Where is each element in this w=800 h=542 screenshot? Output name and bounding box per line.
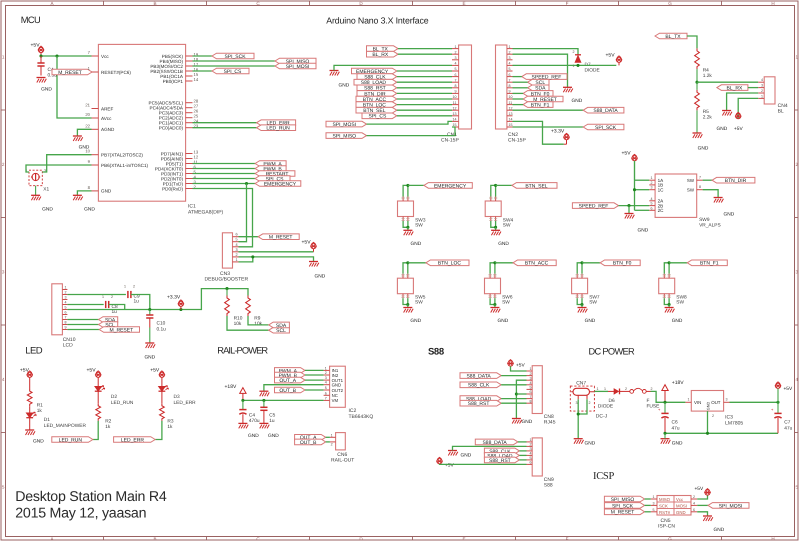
svg-text:3: 3 (761, 84, 763, 88)
net flag M_RESET (CN3) (258, 234, 299, 240)
wire AGND to ground (77, 129, 91, 136)
junction IC3 gnd (706, 432, 709, 435)
svg-text:DC POWER: DC POWER (589, 346, 636, 356)
svg-text:MISO: MISO (659, 497, 671, 502)
svg-text:9: 9 (455, 90, 457, 94)
svg-text:BTN_SEL: BTN_SEL (525, 183, 547, 189)
svg-text:SPI_MOSI: SPI_MOSI (286, 64, 310, 70)
wire +3.3V rail (LCD) (67, 289, 248, 310)
svg-text:6: 6 (236, 233, 238, 237)
svg-text:5: 5 (530, 456, 532, 460)
svg-text:8: 8 (455, 84, 457, 88)
svg-text:6: 6 (325, 391, 327, 395)
capacitor C7 (777, 402, 779, 413)
svg-text:Vcc: Vcc (101, 54, 109, 59)
svg-text:SPI_SCK: SPI_SCK (612, 503, 634, 509)
connector CN7 DC jack (570, 386, 594, 411)
wire EMERGENCY to CN1 pin5 (397, 70, 452, 72)
svg-text:M_RESET: M_RESET (110, 327, 134, 333)
IC2 motor driver body (330, 366, 346, 407)
svg-text:SCL: SCL (276, 328, 286, 334)
svg-text:1: 1 (455, 45, 457, 49)
junction +3.3V stem (179, 308, 182, 311)
svg-text:S88_CLK: S88_CLK (468, 383, 490, 389)
power +5V (CN4) (736, 114, 741, 119)
wire CN4 pin2 to ground (727, 93, 759, 111)
svg-text:2015 May 12, yaasan: 2015 May 12, yaasan (15, 506, 146, 522)
svg-text:SPI_MOSI: SPI_MOSI (332, 122, 356, 128)
svg-text:SW: SW (415, 300, 423, 306)
svg-text:4: 4 (325, 381, 327, 385)
svg-text:1: 1 (604, 387, 606, 391)
svg-text:S88_DATA: S88_DATA (482, 440, 507, 446)
svg-text:4: 4 (236, 243, 238, 247)
resistor R2 (97, 391, 99, 404)
net flag SPI_MOSI (ICSP) (708, 503, 749, 509)
wire CN3 pin6 to M_RESET (239, 236, 259, 238)
svg-text:2: 2 (693, 495, 695, 499)
svg-text:VM: VM (332, 398, 339, 403)
wire R5 to ground (696, 110, 698, 133)
svg-text:15: 15 (509, 123, 513, 127)
svg-text:GND: GND (638, 228, 649, 234)
svg-text:RAIL-POWER: RAIL-POWER (217, 345, 268, 355)
svg-text:7: 7 (455, 78, 457, 82)
svg-text:BTN_F1: BTN_F1 (531, 103, 550, 109)
svg-text:AREF: AREF (101, 106, 113, 111)
svg-text:Vcc: Vcc (676, 497, 684, 502)
net flag SCL (pull-up) (269, 327, 290, 333)
wire PB5 to SPI_SCK (193, 55, 213, 57)
svg-text:4: 4 (530, 452, 532, 456)
ground (C5 rail) (259, 422, 268, 424)
svg-text:X1: X1 (43, 187, 49, 193)
svg-text:Desktop Station Main R4: Desktop Station Main R4 (15, 489, 167, 505)
svg-text:SPI_MISO: SPI_MISO (611, 497, 635, 503)
connector CN8 (532, 366, 542, 414)
net flag PWM_B (IC1) (255, 166, 286, 172)
svg-text:SW: SW (502, 300, 510, 306)
wire C9 to rail (131, 295, 150, 310)
svg-text:1: 1 (653, 495, 655, 499)
svg-text:BTN_F0: BTN_F0 (613, 261, 632, 267)
resistor R10 (226, 289, 228, 296)
svg-text:PB7(XTAL2/TOSC2): PB7(XTAL2/TOSC2) (101, 153, 143, 158)
svg-text:D3: D3 (174, 394, 180, 400)
svg-text:1: 1 (2, 55, 5, 60)
wire PC0 to LED_RUN (193, 127, 257, 129)
svg-text:8: 8 (65, 321, 67, 325)
svg-text:2: 2 (589, 401, 591, 405)
svg-text:GND: GND (522, 419, 533, 425)
IC1 right pin stubs (186, 55, 193, 57)
svg-text:6: 6 (530, 390, 532, 394)
svg-text:3: 3 (65, 296, 67, 300)
svg-text:GND: GND (714, 527, 725, 533)
svg-text:SW: SW (503, 223, 511, 229)
crystal X1 (29, 170, 42, 186)
ground (CN8) (512, 418, 521, 420)
net flag BL_RX (CN1) (367, 51, 399, 57)
svg-text:4: 4 (2, 377, 5, 382)
svg-text:5: 5 (530, 386, 532, 390)
svg-text:M_RESET: M_RESET (58, 70, 82, 76)
capacitor C10 (149, 310, 151, 316)
wire CN2 pin4 to +5V (513, 64, 617, 66)
svg-text:+5V: +5V (695, 486, 704, 492)
net flag S88_CLK (CN8) (460, 382, 501, 388)
svg-text:+18V: +18V (225, 384, 237, 390)
wire CN10 pin9 to M_RESET (67, 329, 99, 331)
ground (CN3) (309, 261, 318, 263)
net flag S88_RST (CN1 pin8) (357, 85, 397, 91)
svg-text:G: G (668, 536, 672, 541)
net flag M_RESET (CN2) (523, 96, 563, 102)
ground (CN1 pin4) (330, 70, 339, 72)
junction CN7 gnd (577, 412, 580, 415)
svg-text:1.2k: 1.2k (703, 73, 713, 79)
power +5V (CN9) (437, 459, 442, 464)
svg-text:10: 10 (453, 95, 457, 99)
svg-text:BTN_F1: BTN_F1 (700, 261, 719, 267)
net flag SPI_SCK (CN2) (583, 124, 624, 130)
net flag BL_TX (CN1) (367, 46, 399, 52)
net flag SPI_CS (IC1) (212, 68, 249, 74)
ground (CN4) (722, 110, 731, 112)
svg-text:4: 4 (796, 377, 799, 382)
svg-text:GND: GND (717, 126, 728, 132)
wire +5V to IC1 VCC (41, 55, 92, 57)
svg-text:10k: 10k (254, 321, 262, 327)
svg-text:GND: GND (707, 402, 711, 411)
svg-text:1: 1 (325, 366, 327, 370)
wire SPI_SCK to CN5 pin3 (645, 504, 651, 506)
wire S88_LOAD to CN8 pin7 (501, 398, 526, 400)
svg-text:7: 7 (530, 395, 532, 399)
svg-text:R3: R3 (167, 419, 173, 425)
svg-text:G: G (668, 1, 672, 6)
junction CN3 pins 1-2 (251, 255, 254, 258)
svg-text:GND: GND (410, 318, 421, 324)
svg-text:H: H (771, 536, 774, 541)
net flag BTN_ACC (CN1 pin10) (356, 96, 397, 102)
power +5V (DC out) (775, 383, 780, 388)
svg-text:3: 3 (653, 501, 655, 505)
net flag EMERGENCY (CN1 pin5) (352, 68, 397, 74)
ground (SW9 right) (714, 197, 723, 199)
svg-text:20: 20 (85, 112, 90, 117)
svg-text:GND: GND (144, 355, 155, 361)
svg-text:LED_ERR: LED_ERR (174, 400, 197, 406)
svg-text:1C: 1C (658, 188, 665, 193)
svg-text:GND: GND (672, 318, 683, 324)
wire SW9 pin7 to BTN_DIR (703, 179, 713, 181)
net flag SPI_MISO (CN1) (326, 133, 367, 139)
wire S88_RST to CN1 pin8 (397, 87, 452, 89)
svg-text:1: 1 (236, 258, 238, 262)
svg-text:SPI_MISO: SPI_MISO (332, 134, 356, 140)
connector CN4 (764, 77, 775, 104)
net flag RESTART (IC1) (255, 171, 295, 177)
wire SPI_MOSI to CN1 pin14 (367, 121, 453, 124)
wire PWM_B to IN2 (305, 374, 324, 376)
svg-text:GND: GND (268, 433, 279, 439)
svg-text:1: 1 (597, 387, 599, 391)
svg-text:D2: D2 (111, 394, 117, 400)
svg-text:10k: 10k (234, 321, 242, 327)
wire CN3 pin2 to ground (239, 257, 314, 262)
resistor R5 (695, 90, 700, 111)
net flag BTN_DIR (SW9) (712, 177, 755, 183)
svg-text:CN-15P: CN-15P (508, 137, 526, 143)
net flag SPI_MOSI (CN1) (326, 121, 367, 127)
svg-text:SPI_CS: SPI_CS (369, 114, 387, 120)
svg-text:7: 7 (699, 176, 701, 180)
wire BTN_DIR to CN1 pin9 (397, 92, 452, 94)
svg-text:7: 7 (65, 316, 67, 320)
svg-text:SW: SW (676, 300, 684, 306)
wire CN2 pin15 to SPI_SCK (513, 126, 584, 128)
net flag SCL (CN2) (528, 79, 549, 85)
svg-text:LED_ERR: LED_ERR (121, 437, 144, 443)
LED D3 (159, 386, 166, 391)
svg-text:6: 6 (530, 461, 532, 465)
svg-text:1: 1 (530, 438, 532, 442)
svg-text:EMERGENCY: EMERGENCY (434, 183, 467, 189)
svg-text:D1: D1 (44, 417, 50, 423)
wire M_RESET to CN5 pin5 (645, 511, 651, 513)
svg-text:GND: GND (411, 241, 422, 247)
wire PB3 to SPI_MOSI (193, 65, 276, 67)
svg-text:SPI_CS: SPI_CS (224, 69, 242, 75)
svg-text:3: 3 (530, 376, 532, 380)
svg-text:AGND: AGND (101, 127, 115, 132)
net flag SPI_MOSI (IC1) (275, 63, 316, 69)
wire D1 to ground (29, 418, 31, 430)
svg-text:3: 3 (509, 56, 511, 60)
svg-text:+5V: +5V (87, 367, 97, 373)
svg-text:GND: GND (101, 189, 112, 194)
switch SW6 (BTN_ACC) (490, 263, 495, 274)
svg-text:11: 11 (453, 101, 457, 105)
wire CN7 to D6 (594, 390, 608, 392)
wire CN10 pin2 to C9 (67, 294, 126, 296)
wire PWM_A to IN1 (305, 369, 324, 371)
junction C4 top (241, 399, 244, 402)
net flag LED_RUN (R2) (52, 437, 93, 443)
svg-text:11: 11 (509, 101, 513, 105)
svg-text:F: F (566, 536, 569, 541)
IC1 left pin stubs (92, 55, 99, 57)
wire CN2 pin1 to diode D7 (513, 49, 579, 55)
net flag LED_ERR (R3) (114, 437, 156, 443)
svg-text:22: 22 (85, 123, 90, 128)
svg-text:+5V: +5V (302, 239, 312, 245)
wire CN4 pin1 to +5V (738, 98, 758, 119)
svg-text:+5V: +5V (734, 126, 743, 132)
wire CN2 pin2 to ground (513, 54, 568, 87)
svg-text:B: B (153, 1, 156, 6)
wire OUT_A to CN6 pin1 (326, 436, 330, 438)
svg-text:5: 5 (65, 306, 67, 310)
resistor R9 (246, 296, 251, 317)
wire SPI_CS to CN1 pin13 (397, 115, 452, 117)
svg-text:ATMEGA8(DIP): ATMEGA8(DIP) (188, 210, 224, 216)
wire crystal to ground (35, 186, 37, 196)
wire SW9 2B to ground (628, 206, 630, 214)
svg-text:3: 3 (455, 56, 457, 60)
wire +5V to SW9 1A/1C/2C (634, 161, 636, 210)
net flag BTN_F1 (CN2) (523, 102, 553, 108)
svg-text:14: 14 (194, 77, 199, 82)
net flag BTN_SEL (CN1 pin12) (356, 107, 397, 113)
net flag M_RESET (ICSP) (604, 509, 644, 515)
svg-text:+3.3V: +3.3V (167, 295, 181, 301)
resistor R1 (27, 389, 32, 406)
svg-text:BTN_LOC: BTN_LOC (438, 261, 461, 267)
svg-text:GND: GND (315, 274, 326, 280)
svg-text:2: 2 (651, 181, 653, 185)
svg-text:DEBUG/BOOSTER: DEBUG/BOOSTER (205, 276, 249, 282)
svg-text:5: 5 (509, 67, 511, 71)
svg-text:4: 4 (455, 62, 457, 66)
svg-text:Arduino Nano 3.X Interface: Arduino Nano 3.X Interface (326, 16, 428, 26)
svg-text:C7: C7 (784, 419, 790, 425)
capacitor C4 (40, 56, 42, 63)
wire CN10 pin4 to C8 (67, 304, 103, 306)
svg-text:21: 21 (85, 103, 90, 108)
svg-text:3: 3 (236, 248, 238, 252)
svg-text:2: 2 (111, 295, 113, 299)
svg-text:C5: C5 (269, 413, 275, 419)
ground (X1) (31, 194, 40, 196)
net flag OUT_B (IC2) (275, 387, 306, 393)
svg-text:R5: R5 (703, 109, 709, 115)
junction C9 rail (148, 308, 151, 311)
wire PD1 to EMERGENCY (193, 183, 256, 185)
svg-text:+5V: +5V (784, 386, 793, 392)
svg-text:3: 3 (796, 270, 799, 275)
svg-text:OUT_A: OUT_A (279, 378, 296, 384)
svg-text:LM7805: LM7805 (725, 421, 743, 427)
net flag SPI_CS (CN1 pin13) (362, 113, 397, 119)
junction AVCC branch (55, 54, 58, 57)
svg-text:1: 1 (530, 367, 532, 371)
svg-text:6: 6 (651, 206, 653, 210)
svg-text:R4: R4 (703, 68, 709, 74)
svg-text:GND: GND (724, 212, 735, 218)
svg-text:OUT_B: OUT_B (300, 440, 317, 446)
svg-text:8: 8 (530, 399, 532, 403)
connector CN5 ISP header (657, 496, 691, 516)
svg-text:SPI_SCK: SPI_SCK (224, 54, 246, 60)
net flag SPEED_REF (SW9) (572, 203, 618, 209)
net flag S88_LOAD (CN8) (460, 396, 501, 402)
svg-text:GND: GND (572, 98, 583, 104)
svg-text:SPEED_REF: SPEED_REF (579, 204, 609, 210)
junction C5 top (262, 399, 265, 402)
svg-text:14: 14 (453, 118, 457, 122)
diode D6 (614, 389, 619, 394)
wire OUT_B to CN6 pin2 (326, 441, 330, 443)
svg-text:DIODE: DIODE (598, 404, 613, 410)
svg-text:4: 4 (761, 78, 763, 82)
svg-text:1: 1 (65, 286, 67, 290)
svg-text:GND: GND (84, 207, 95, 213)
svg-text:S88: S88 (544, 483, 553, 489)
ground (CN2 pin2) (563, 86, 572, 88)
wire OUT_A to OUT1 (305, 379, 324, 381)
wire R9 to SDA flag (248, 316, 269, 325)
junction +5V column (39, 54, 42, 57)
svg-text:PC0(ADC0): PC0(ADC0) (159, 126, 184, 131)
svg-text:0.1u: 0.1u (157, 327, 167, 333)
net flag BL_RX (BL) (717, 85, 748, 91)
svg-text:3: 3 (576, 401, 578, 405)
net flag S88_DATA (CN9) (475, 439, 518, 445)
svg-text:GND: GND (585, 318, 596, 324)
ground (R5) (693, 132, 702, 134)
net flag SDA (CN10) (99, 317, 118, 323)
svg-text:2: 2 (796, 162, 799, 167)
svg-text:GND: GND (42, 207, 53, 213)
wire CN10 pin8 to SCL (67, 324, 98, 326)
net flag BTN_F0 (CN2) (523, 91, 553, 97)
switch SW5 (BTN_LOC) (403, 263, 408, 274)
svg-text:DC-J: DC-J (596, 414, 608, 420)
svg-text:B: B (153, 536, 156, 541)
wire R2 to LED_RUN flag (93, 421, 98, 440)
connector CN6 (336, 433, 346, 450)
rotary encoder SW9 body (655, 174, 697, 217)
switch SW3 (EMERGENCY) (403, 185, 408, 196)
connector CN3 (222, 233, 232, 268)
svg-text:1: 1 (761, 94, 763, 98)
net flag SDA (pull-up) (269, 322, 290, 328)
wire C10 to ground (149, 328, 151, 344)
wire BL_RX to CN4 pin3 (748, 87, 758, 89)
wire SPI_MISO to CN1 pin15 (367, 127, 456, 136)
svg-text:PB0(ICP1: PB0(ICP1 (163, 79, 184, 84)
net flag S88_CLK (CN9) (484, 448, 519, 454)
svg-text:R2: R2 (105, 419, 111, 425)
net flag OUT_A (IC2) (275, 377, 306, 383)
wire CN3 pin1 join (239, 257, 253, 262)
ground (SW9 left) (625, 213, 634, 215)
net flag SDA (CN2) (528, 85, 549, 91)
wire ground to CN9 pin2 (453, 446, 527, 450)
svg-text:GND: GND (332, 383, 342, 388)
svg-text:2: 2 (325, 371, 327, 375)
svg-text:SCK: SCK (659, 503, 668, 508)
wire CN10 pin7 to SDA (67, 319, 98, 321)
svg-text:GND: GND (672, 441, 683, 447)
wire CN8 pin3 to ground (516, 380, 526, 418)
net flag EMERGENCY (IC1) (255, 181, 301, 187)
svg-text:M_RESET: M_RESET (611, 510, 635, 516)
svg-text:GND: GND (33, 439, 44, 445)
svg-text:2: 2 (530, 443, 532, 447)
svg-text:R10: R10 (234, 316, 243, 322)
svg-text:13: 13 (509, 112, 513, 116)
svg-text:E: E (462, 536, 465, 541)
svg-text:1u: 1u (134, 298, 140, 304)
svg-text:2: 2 (236, 253, 238, 257)
wire CN2 pin14 to +3.3V (513, 121, 564, 144)
switch SW4 (BTN_SEL) (491, 185, 496, 196)
svg-text:1: 1 (688, 398, 690, 402)
svg-text:5: 5 (2, 485, 5, 490)
